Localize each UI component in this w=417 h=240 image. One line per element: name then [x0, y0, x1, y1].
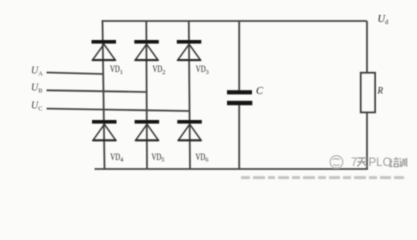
diode VD6 [177, 120, 202, 140]
wire phase C input [47, 109, 190, 111]
diode VD1 [92, 40, 117, 60]
blurred footer smudge [241, 176, 404, 179]
wire capacitor branch upper [238, 21, 240, 91]
wire column 3 (VD3/VD6 leg) [189, 21, 190, 169]
capacitor C plates [227, 90, 252, 105]
wire phase A input [47, 73, 104, 75]
svg-text:C: C [256, 86, 264, 97]
wire phase B input [47, 90, 147, 92]
glyph tian [357, 158, 367, 167]
wire column 2 (VD2/VD5 leg) [145, 21, 148, 169]
resistor R body [361, 73, 375, 113]
wire capacitor branch lower [238, 105, 240, 169]
glyph xun [400, 158, 407, 167]
glyph pei [389, 157, 399, 166]
svg-text:R: R [377, 86, 384, 96]
svg-text:PLC: PLC [369, 157, 391, 169]
diode VD4 [92, 120, 117, 140]
diode VD2 [134, 40, 159, 60]
svg-text:7: 7 [351, 157, 357, 169]
wire column 1 (VD1/VD4 leg) [103, 21, 105, 169]
diode VD5 [135, 120, 160, 140]
wire right vertical (load branch) [366, 21, 368, 169]
watermark icon [330, 156, 343, 169]
wire top bus [102, 20, 368, 22]
diode VD3 [177, 40, 202, 60]
wire bottom bus [95, 168, 368, 170]
watermark text 7天PLC培训 [351, 157, 407, 169]
